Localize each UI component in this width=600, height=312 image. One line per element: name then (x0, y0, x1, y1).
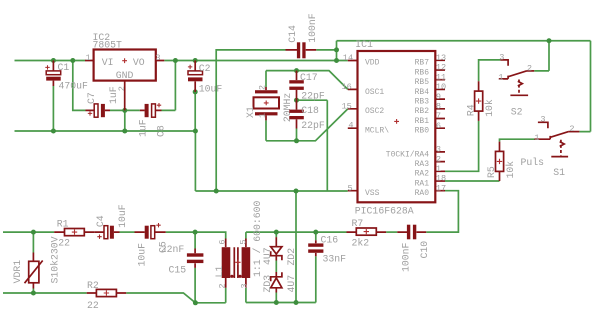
svg-text:17: 17 (436, 183, 446, 193)
capacitor C2 10uF electrolytic (188, 61, 222, 95)
svg-text:3: 3 (240, 283, 250, 288)
svg-text:1: 1 (436, 164, 441, 174)
svg-text:2: 2 (527, 63, 532, 73)
svg-text:4U7: 4U7 (286, 275, 297, 293)
svg-text:VSS: VSS (365, 189, 380, 198)
crystal X1 20MHz (245, 85, 293, 122)
capacitor C14 100nF (286, 13, 319, 58)
wire GND node to ground rail (124, 110, 126, 131)
svg-text:22: 22 (87, 300, 99, 311)
wire left ground rail to VSS rail riser (194, 131, 196, 191)
microcontroller IC1 PIC16F628A (342, 39, 447, 217)
wire C4 to C5 (120, 231, 135, 233)
wire OSC1 node: X1 top / C17 top to pin 16 (266, 71, 348, 90)
svg-text:8: 8 (436, 102, 441, 112)
svg-text:T0CKI/RA4: T0CKI/RA4 (386, 150, 429, 159)
svg-text:1: 1 (498, 72, 503, 82)
svg-text:10uF: 10uF (136, 243, 147, 267)
wire phone line bottom rail (3, 288, 226, 303)
svg-text:C14: C14 (287, 25, 298, 43)
node OSC1 / C17 top (294, 68, 299, 73)
svg-text:C2: C2 (199, 63, 211, 74)
svg-text:RA3: RA3 (415, 160, 430, 169)
wire ground rail left (15, 130, 196, 132)
wire C2 bottom to ground rail (194, 92, 196, 131)
wire VSS rail to bottom right ground rail (295, 191, 297, 303)
wire C7 to C8 segment (110, 109, 140, 111)
svg-text:OSC1: OSC1 (365, 88, 384, 97)
wire crystal caps mid node to VSS rail (297, 100, 328, 191)
node C5 right / C15 (193, 230, 198, 235)
svg-text:RA2: RA2 (415, 170, 430, 179)
svg-text:VO: VO (133, 57, 145, 68)
svg-text:12: 12 (436, 63, 446, 73)
svg-text:2: 2 (218, 283, 228, 288)
wire S1 pin 1 to R5 top (500, 139, 535, 141)
node +5 top rail / S2 branch (547, 38, 552, 43)
resistor R7 2k2 (347, 218, 387, 249)
node C7/C8/IC2 GND (122, 108, 127, 113)
svg-text:10k: 10k (505, 161, 516, 179)
node secondary top / C16 (313, 230, 318, 235)
svg-text:RB7: RB7 (415, 59, 430, 68)
svg-text:R2: R2 (87, 280, 99, 291)
svg-text:C15: C15 (169, 265, 187, 276)
wire zener branch (275, 232, 277, 302)
node ground rail / GND riser (122, 129, 127, 134)
svg-text:10uF: 10uF (199, 83, 223, 94)
node VSS rail / bottom ground riser (294, 189, 299, 194)
node ground rail / C1 (51, 129, 56, 134)
resistor R1 22 (54, 219, 94, 249)
svg-text:R1: R1 (57, 219, 69, 230)
svg-text:VI: VI (102, 57, 114, 68)
zener diode ZD3 4U7 (262, 272, 297, 293)
node right ground rail / VSS riser (294, 300, 299, 305)
svg-text:PIC16F628A: PIC16F628A (355, 205, 414, 216)
wire ground riser x=216 to C14 left (216, 50, 285, 191)
capacitor C10 100nF (397, 225, 430, 272)
wire IC2 VO output to IC1 VDD pin 14 (164, 60, 347, 62)
node secondary top / zeners (274, 230, 279, 235)
svg-text:5: 5 (348, 183, 353, 193)
svg-text:RA1: RA1 (415, 179, 430, 188)
svg-text:10k: 10k (484, 99, 495, 117)
svg-text:7805T: 7805T (93, 39, 123, 50)
svg-text:R5: R5 (486, 166, 497, 178)
wire OSC2 node: X1 bottom / C18 bottom to pin 15 (266, 109, 348, 141)
svg-text:16: 16 (342, 82, 352, 92)
wire VSS ground rail (195, 190, 347, 192)
svg-text:ZD2: ZD2 (286, 248, 297, 266)
wire R5 bottom to IC1 RA1 pin 18 (445, 180, 500, 182)
svg-text:R4: R4 (465, 104, 476, 116)
capacitor C16 33nF (308, 234, 346, 264)
svg-text:RB2: RB2 (415, 107, 430, 116)
svg-text:RB0: RB0 (415, 127, 430, 136)
svg-text:22pF: 22pF (301, 120, 325, 131)
wire input top-left to IC2 VI (15, 60, 86, 62)
svg-text:C8: C8 (156, 125, 167, 137)
capacitor C4 10uF electrolytic (94, 204, 128, 239)
node input wire / C1 (51, 58, 56, 63)
svg-text:ZD3: ZD3 (262, 275, 273, 293)
svg-text:6: 6 (218, 239, 228, 244)
wire L1 pin 5 secondary top to R7 (246, 232, 347, 238)
capacitor C7 1uF (86, 86, 120, 117)
node right ground rail / zeners (274, 300, 279, 305)
svg-text:C10: C10 (419, 241, 430, 259)
resistor R2 22 (87, 280, 127, 311)
svg-text:7: 7 (436, 111, 441, 121)
svg-text:22pF: 22pF (301, 91, 325, 102)
wire +5 branch to S2 pin 2 (534, 41, 549, 71)
svg-text:22nF: 22nF (161, 244, 185, 255)
node VSS rail / C14 ground riser (214, 189, 219, 194)
svg-text:1: 1 (534, 133, 539, 143)
wire phone line input left (3, 231, 54, 233)
svg-text:10: 10 (436, 82, 446, 92)
wire R4 top to S2 pin 3 (479, 60, 501, 81)
node C14 right / +5 vertical (334, 47, 339, 52)
svg-text:R7: R7 (352, 218, 364, 229)
varistor VDR1 S10k230V (12, 236, 60, 288)
node +5 wire / C8 riser (173, 58, 178, 63)
voltage regulator IC2 7805T (85, 32, 164, 111)
svg-text:3: 3 (540, 115, 545, 125)
svg-text:10uF: 10uF (117, 204, 128, 228)
svg-text:4: 4 (348, 121, 353, 131)
node OSC2 / C18 bottom (294, 138, 299, 143)
wire VDR1 branch (32, 232, 34, 293)
wire C14 right to +5 vertical (316, 49, 336, 51)
svg-text:11: 11 (436, 72, 446, 82)
wire C16 branch (315, 232, 317, 302)
svg-text:100nF: 100nF (307, 13, 318, 43)
svg-text:C17: C17 (300, 72, 318, 83)
capacitor C15 22nF (161, 244, 204, 275)
svg-text:5: 5 (239, 239, 249, 244)
wire L1 pin 3 to right ground rail (246, 288, 316, 303)
wire C1 bottom to ground rail (52, 86, 54, 131)
svg-text:33nF: 33nF (323, 254, 347, 265)
svg-text:4U7: 4U7 (262, 247, 273, 265)
wire R7 to C10 (386, 231, 397, 233)
svg-text:C18: C18 (301, 105, 319, 116)
zener diode ZD2 4U7 (262, 237, 297, 265)
svg-text:IC1: IC1 (355, 39, 373, 50)
capacitor C1 470uF electrolytic (45, 61, 88, 92)
switch S1 Puls (521, 115, 580, 179)
svg-text:13: 13 (436, 53, 446, 63)
svg-text:2: 2 (257, 85, 267, 90)
svg-text:S1: S1 (553, 167, 565, 178)
wire C7 branch from input node (73, 61, 86, 111)
svg-text:L1: L1 (214, 266, 225, 278)
svg-text:22: 22 (58, 237, 70, 248)
node bottom rail / C15 bottom (193, 300, 198, 305)
capacitor C5 10uF electrolytic (135, 223, 169, 267)
switch S2 (498, 52, 534, 117)
svg-text:15: 15 (342, 101, 352, 111)
svg-text:3: 3 (155, 53, 160, 63)
wire R4 bottom to IC1 RA2 pin 1 (445, 121, 479, 171)
svg-text:C4: C4 (95, 215, 106, 227)
svg-text:RB6: RB6 (415, 68, 430, 77)
svg-text:RB4: RB4 (415, 88, 430, 97)
svg-text:1: 1 (86, 53, 91, 63)
wire C5 right to L1 pin 6 (166, 232, 226, 238)
node phone line / VDR1 top (31, 230, 36, 235)
svg-text:18: 18 (436, 174, 446, 184)
svg-text:RB1: RB1 (415, 117, 430, 126)
svg-text:6: 6 (436, 121, 441, 131)
svg-text:14: 14 (343, 53, 353, 63)
wire C15 branch (194, 232, 196, 303)
node C17/C18 mid (294, 98, 299, 103)
wire IC1 RA0 pin 17 to C10 right (426, 191, 458, 232)
transformer L1 1:1 / 600:600 (214, 200, 263, 288)
capacitor C8 1uF (138, 103, 167, 137)
svg-text:GND: GND (116, 70, 134, 81)
svg-text:100nF: 100nF (400, 242, 411, 272)
svg-text:2: 2 (569, 124, 574, 134)
svg-text:1uF: 1uF (138, 119, 149, 137)
node ground rail end / C2 riser (193, 129, 198, 134)
wire C18 bottom segment (296, 129, 298, 141)
node bottom rail / VDR1 (31, 291, 36, 296)
svg-text:X1: X1 (245, 106, 256, 118)
svg-text:MCLR\: MCLR\ (365, 127, 389, 136)
svg-text:S2: S2 (511, 107, 523, 118)
capacitor C18 22pF (289, 100, 325, 131)
svg-text:1uF: 1uF (108, 86, 119, 104)
svg-text:RB3: RB3 (415, 98, 430, 107)
node +5 vertical / VDD wire (334, 58, 339, 63)
capacitor C17 22pF (289, 71, 325, 102)
svg-text:VDR1: VDR1 (12, 260, 23, 284)
svg-text:C1: C1 (58, 62, 70, 73)
svg-text:C16: C16 (321, 234, 339, 245)
svg-text:OSC2: OSC2 (365, 107, 384, 116)
svg-text:RB5: RB5 (415, 78, 430, 87)
wire +5 vertical at x=336.5 (336, 41, 338, 61)
svg-text:RA0: RA0 (415, 189, 430, 198)
svg-text:3: 3 (499, 52, 504, 62)
svg-text:9: 9 (436, 92, 441, 102)
node input wire / C7 (70, 58, 75, 63)
svg-text:1: 1 (257, 113, 267, 118)
svg-text:2k2: 2k2 (352, 238, 370, 249)
wire +5 top rail to right side (337, 41, 591, 132)
node C2 bottom pin (193, 89, 198, 94)
svg-text:Puls: Puls (521, 157, 545, 168)
svg-text:2: 2 (436, 154, 441, 164)
wire X1 pin 2 vertical (265, 71, 267, 87)
svg-text:3: 3 (436, 145, 441, 155)
svg-text:VDD: VDD (365, 59, 380, 68)
node +5 wire / C2 (193, 58, 198, 63)
svg-text:C7: C7 (86, 92, 97, 104)
resistor R4 10k (465, 81, 495, 121)
wire C8 right to +5 wire (162, 61, 176, 111)
resistor R5 10k (486, 142, 516, 181)
svg-text:470uF: 470uF (59, 81, 89, 92)
